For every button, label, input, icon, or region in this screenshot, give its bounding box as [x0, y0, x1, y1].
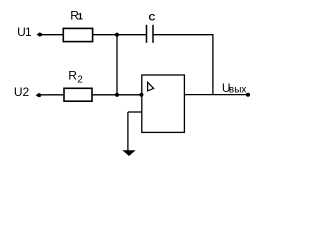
wire U1 to R1: [40, 34, 64, 36]
wire output: [184, 94, 248, 96]
capacitor C: [147, 25, 154, 43]
op-amp triangle symbol: [148, 82, 154, 91]
svg-text:1: 1: [78, 12, 84, 23]
wire R1 to capacitor: [93, 34, 147, 36]
svg-text:вых: вых: [229, 85, 247, 96]
terminal dot output: [246, 93, 250, 97]
svg-text:C: C: [149, 12, 156, 23]
ground: [122, 150, 135, 156]
terminal U2: [36, 93, 41, 97]
terminal U1: [37, 32, 42, 36]
wire R2 to op-amp: [92, 94, 142, 96]
wire U2 to R2: [40, 94, 65, 96]
op-amp U1A body: [142, 75, 185, 132]
svg-text:U2: U2: [14, 85, 30, 99]
junction dot inverting input: [139, 93, 143, 97]
wire non-inverting input vertical: [127, 112, 129, 151]
resistor R2: [64, 88, 92, 101]
junction dot bottom: [115, 93, 119, 97]
wire non-inverting input horizontal: [128, 111, 142, 113]
wire feedback vertical: [212, 34, 214, 95]
svg-text:2: 2: [77, 74, 83, 85]
junction dot top: [115, 33, 119, 37]
svg-text:R: R: [68, 69, 77, 83]
svg-text:U1: U1: [17, 25, 32, 39]
wire input node vertical: [116, 35, 118, 95]
resistor R1: [63, 28, 92, 41]
wire capacitor to feedback corner: [153, 34, 214, 36]
